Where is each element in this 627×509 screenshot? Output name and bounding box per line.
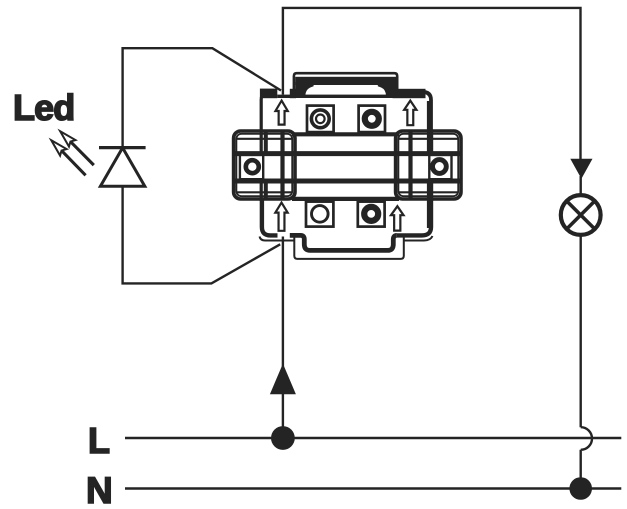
terminal 2 donut — [365, 112, 379, 126]
top fixing tab thin outline — [294, 73, 397, 96]
wire LED branch upper: from LED anode up and over to switch — [123, 48, 281, 147]
claw frame thick rail B — [234, 179, 461, 184]
body inner top line / slot floor under tab arch — [277, 95, 392, 98]
left fixing screw — [246, 160, 259, 173]
label Led — [13, 87, 74, 129]
body bottom edge with tab tray dip — [290, 235, 397, 250]
left claw box outer — [234, 131, 295, 199]
left fixing screw housing — [240, 155, 263, 179]
claw frame thick rail A — [234, 151, 461, 156]
right claw box outer — [396, 131, 461, 199]
top fixing tab thick band — [295, 77, 396, 85]
right claw inner bar — [408, 131, 412, 199]
push-wire arrow top-left — [275, 101, 287, 125]
current direction arrow down (to lamp) — [570, 159, 592, 179]
body bottom thin under-lines — [260, 236, 433, 241]
push-wire arrow bottom-right — [391, 206, 404, 230]
right fixing screw — [433, 160, 447, 174]
node junction dot on N line — [569, 477, 592, 500]
terminal 1 ring — [311, 110, 329, 128]
right fixing screw housing — [429, 155, 451, 179]
terminal 4 square bottom-right — [358, 202, 385, 227]
current direction arrow up (L to switch) — [270, 364, 296, 395]
terminal 3 square bottom-left — [306, 202, 333, 227]
right claw box inner — [398, 134, 458, 196]
push-wire arrow top-right — [404, 101, 416, 126]
body top-right corner and right edge — [393, 92, 432, 131]
body top edge thick band segments — [260, 89, 277, 99]
wire L-line tap up to switch bottom terminal — [282, 237, 284, 439]
node junction dot on L line — [271, 426, 295, 450]
body waist edge lines across middle gap — [292, 134, 399, 199]
terminal 3 circle — [312, 206, 329, 223]
terminal 1 square top-left — [307, 106, 334, 133]
top tab right leg — [378, 82, 396, 96]
top tab left leg — [295, 82, 313, 96]
lamp E1 (circle with X) — [561, 195, 601, 235]
left claw box inner — [236, 134, 292, 196]
LED light emission arrow 2 — [62, 151, 86, 176]
N line — [125, 487, 621, 490]
bottom slot floor — [278, 240, 295, 242]
label N — [86, 470, 112, 509]
body top-left corner and left edge — [261, 92, 277, 131]
bottom fixing tab thin outline — [294, 234, 404, 259]
LED light emission arrow 1 — [70, 142, 93, 166]
L line — [125, 437, 621, 440]
label L — [88, 420, 110, 462]
wire LED branch lower: from LED cathode down and over to switch bottom — [123, 186, 281, 283]
wire from switch top terminal up to top rail and down right side — [283, 8, 581, 160]
left claw inner bar — [280, 131, 284, 199]
LED D1 cathode bar — [99, 146, 146, 149]
terminal 2 square top-right — [359, 106, 385, 133]
switch S1 mechanism body — [234, 73, 461, 259]
wire right side between arrow and lamp — [580, 176, 582, 195]
claw frame thin cross lines inside boxes — [236, 139, 458, 193]
terminal 4 donut — [364, 207, 378, 221]
wire from lamp to N line with crossover hop at L line — [581, 235, 592, 489]
push-wire arrow bottom-left — [275, 203, 287, 231]
LED D1 triangle — [100, 148, 144, 186]
